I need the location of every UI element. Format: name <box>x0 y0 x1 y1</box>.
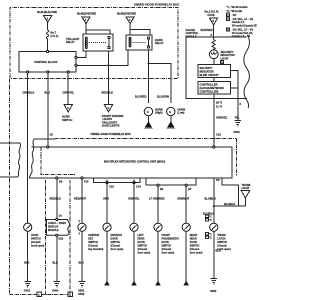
svg-text:*2 : ‘98 model: *2 : ‘98 model <box>227 10 243 13</box>
connector bracket E (under MICU) <box>146 178 196 185</box>
svg-text:INDICATOR: INDICATOR <box>200 69 214 73</box>
svg-text:RELAY: RELAY <box>155 41 164 45</box>
svg-text:LIGHT: LIGHT <box>242 186 250 190</box>
control block <box>19 52 76 73</box>
wire BLU from control block down to MICU <box>47 73 49 147</box>
svg-text:GRN/YEL: GRN/YEL <box>128 197 140 201</box>
ground G501 <box>234 121 242 134</box>
svg-text:CONTROLLER): CONTROLLER) <box>200 90 219 94</box>
svg-text:RELAY: RELAY <box>66 40 75 44</box>
svg-text:V6 model (Canada SE: V6 model (Canada SE <box>232 24 257 27</box>
svg-text:AUDIO – VIDEO: AUDIO – VIDEO <box>48 222 66 225</box>
pin on control block top <box>47 50 49 52</box>
svg-text:· DASH LIGHTS: · DASH LIGHTS <box>101 124 120 128</box>
svg-text:BLU/RED: BLU/RED <box>135 95 147 99</box>
connector bracket C (under MICU) <box>94 178 140 183</box>
connector triangle No.43 fuse (T3) <box>117 12 136 24</box>
security indicator light bulb <box>209 50 234 64</box>
svg-text:G502: G502 <box>78 292 85 296</box>
wire ground riser down to G501 <box>237 88 239 121</box>
ground group dashed box 2 <box>42 180 73 297</box>
wire horn high to ground <box>147 116 149 122</box>
svg-text:UNDER–HOOD FUSE/RELAY BOX: UNDER–HOOD FUSE/RELAY BOX <box>134 2 179 6</box>
wire E7 to right rear door switch <box>185 186 187 223</box>
svg-text:No.41 (20 A) FUSE: No.41 (20 A) FUSE <box>37 10 57 14</box>
driver's door switch <box>103 223 124 251</box>
legend notes <box>227 6 258 38</box>
junction dot horn branch <box>148 62 150 64</box>
front passenger's door switch <box>154 223 179 254</box>
svg-text:G501: G501 <box>234 130 241 134</box>
MICU box <box>29 147 239 206</box>
svg-text:FUSE: FUSE <box>208 13 215 17</box>
svg-text:BLU/BLK: BLU/BLK <box>224 202 236 206</box>
svg-text:CONTROL BLOCK: CONTROL BLOCK <box>34 60 58 64</box>
hood switch <box>24 223 45 247</box>
bracket C pin C15 <box>106 182 108 184</box>
body ground (front passenger's door) <box>156 281 161 285</box>
svg-text:BLINK CIRCUIT: BLINK CIRCUIT <box>200 73 220 77</box>
svg-text:LIGHT: LIGHT <box>221 56 229 60</box>
svg-text:E9: E9 <box>160 187 164 191</box>
svg-text:No.2 (10 A): No.2 (10 A) <box>205 10 219 14</box>
svg-text:G501: G501 <box>78 289 85 293</box>
ground group dashed box 1 <box>9 79 45 297</box>
svg-text:*1 : ‘96–98 models: *1 : ‘96–98 models <box>227 6 249 9</box>
pin on control block right (upper) <box>75 56 77 58</box>
svg-text:door open): door open) <box>138 252 151 255</box>
svg-text:(GAUGE/NETWORK: (GAUGE/NETWORK <box>200 86 225 90</box>
svg-text:CONTROLLER: CONTROLLER <box>200 83 218 87</box>
ground under horn high <box>144 122 153 129</box>
svg-text:UNDER–DASH FUSE/RELAY BOX: UNDER–DASH FUSE/RELAY BOX <box>91 132 131 136</box>
wire right rear door switch to body ground <box>185 231 187 281</box>
trunk light arrow <box>241 191 250 198</box>
junction dot trunk light tap <box>213 205 215 207</box>
body ground (right rear door) <box>184 281 189 285</box>
wire horn relay contact down and branch to horns <box>148 50 150 103</box>
torn edge left outer <box>0 143 21 177</box>
trunk latch switch <box>210 223 231 251</box>
horn low <box>167 107 186 115</box>
audio-video display module box (torn right edge) <box>47 220 70 241</box>
under-hood fuse/relay box (dash-dot outline) <box>10 8 178 79</box>
svg-text:G401: G401 <box>24 289 31 293</box>
svg-text:WHT/RED: WHT/RED <box>201 28 213 32</box>
wire E9 to front passenger's door switch <box>157 186 159 223</box>
arrow to horn switch <box>62 105 72 122</box>
MICU top pin GRN/YEL <box>213 146 215 148</box>
wire bulb to blink circuit box <box>213 59 215 65</box>
svg-text:GRN/BLK: GRN/BLK <box>23 91 35 95</box>
svg-text:DISPLAY: DISPLAY <box>48 226 59 229</box>
gauge control module box (right edge torn) <box>186 28 248 99</box>
svg-text:No.43 (15 A) FUSE: No.43 (15 A) FUSE <box>117 12 136 16</box>
wire blink circuit to controller box <box>213 78 215 82</box>
svg-text:G502: G502 <box>210 289 217 293</box>
ground G502 <box>210 279 217 294</box>
audio module top pin <box>56 218 58 220</box>
svg-text:LT GRN/RED: LT GRN/RED <box>149 197 165 201</box>
svg-text:E7: E7 <box>188 187 192 191</box>
svg-text:MODULE: MODULE <box>186 34 198 38</box>
wire bus taillight coil to control block <box>77 51 86 58</box>
ground under horn low <box>166 122 175 129</box>
bracket C pin C14 <box>133 182 135 184</box>
wire D9 to audio module <box>56 179 58 218</box>
svg-text:: D4: : D4 <box>232 14 237 17</box>
MICU bottom pin D9 <box>56 177 58 179</box>
wire trunk light arrow to horizontal <box>244 198 246 206</box>
svg-text:(Low): (Low) <box>178 111 185 115</box>
pin on control block right (lower) <box>75 64 77 66</box>
horn high <box>144 107 163 115</box>
svg-text:BLK: BLK <box>216 249 221 253</box>
svg-text:GRN/WHT: GRN/WHT <box>177 197 190 201</box>
torn edge left inner <box>30 139 56 178</box>
svg-text:RED/WHT: RED/WHT <box>74 197 87 201</box>
svg-text:BLU/GRN: BLU/GRN <box>157 95 169 99</box>
svg-text:GRN/YEL: GRN/YEL <box>63 91 75 95</box>
ground G501/G502 <box>78 282 85 297</box>
security indicator blink circuit box <box>198 65 231 78</box>
svg-text:1A: 1A <box>59 214 62 218</box>
pin on control block bottom GRN/YEL <box>67 71 69 73</box>
under-dash box right dash edge <box>236 139 238 177</box>
taillight relay <box>66 34 113 51</box>
wire GRN/YEL from control block down to horn switch arrow <box>67 73 69 104</box>
svg-text:door open): door open) <box>190 252 203 255</box>
horn relay <box>126 35 164 50</box>
svg-text:door open): door open) <box>162 252 175 255</box>
wire driver's door switch to body ground <box>106 231 108 281</box>
svg-text:BLK: BLK <box>53 261 58 265</box>
arrow to front parking lights <box>101 105 124 128</box>
wire GRN/YEL from controller down to MICU <box>213 94 215 147</box>
svg-text:key inserted): key inserted) <box>88 248 103 251</box>
under-dash box top dash-dot line <box>55 138 237 140</box>
left rear door switch <box>130 223 151 254</box>
audio module bottom pin <box>56 234 58 236</box>
svg-text:(7.5 A): (7.5 A) <box>51 34 59 38</box>
connector triangle No.2 fuse (T4) <box>205 10 219 25</box>
wire left rear door switch to body ground <box>133 231 135 281</box>
svg-text:GRN/YEL: GRN/YEL <box>216 115 228 119</box>
wire T3 to horn relay with branch <box>129 24 131 35</box>
svg-text:A29: A29 <box>58 236 63 240</box>
ground G404 <box>52 282 60 293</box>
svg-text:C14: C14 <box>136 185 141 189</box>
svg-text:RED/BLU: RED/BLU <box>50 197 62 201</box>
svg-text:C9: C9 <box>50 132 54 136</box>
wire front passenger's door switch to body ground <box>157 231 159 281</box>
wire trunk latch switch to ground <box>213 231 215 278</box>
svg-text:P8: P8 <box>216 178 220 182</box>
ground G401 <box>24 282 31 293</box>
svg-text:SECURITY: SECURITY <box>200 66 213 70</box>
svg-text:F10: F10 <box>84 180 89 184</box>
right rear door switch <box>182 223 203 254</box>
svg-text:MULTIPLEX INTEGRATED CONTROL U: MULTIPLEX INTEGRATED CONTROL UNIT (MICU) <box>104 160 165 164</box>
wire fuse No.7 to control block <box>47 39 49 50</box>
wire C15 to driver's door switch <box>106 179 108 223</box>
svg-text:C15: C15 <box>109 185 114 189</box>
wire T1 to fuse No.7 <box>47 22 49 30</box>
svg-text:door open): door open) <box>111 248 124 251</box>
MICU top pin BLU <box>47 146 49 148</box>
connector marks above trunk switch <box>206 215 213 222</box>
svg-text:MODULE: MODULE <box>48 229 59 232</box>
under-dash box dash-dot left/bottom edges <box>41 148 75 175</box>
svg-text:H: H <box>147 110 149 114</box>
wire bus lower: control block to horn relay coil <box>77 50 128 65</box>
svg-text:D9: D9 <box>59 180 63 184</box>
resistor in gauge module <box>212 40 215 50</box>
body ground (driver's door) <box>105 281 110 285</box>
ignition key switch <box>78 223 104 251</box>
wire audio module to ground <box>56 236 58 281</box>
svg-text:BLK: BLK <box>79 261 84 265</box>
wire ignition switch to ground <box>81 231 83 281</box>
connector triangle No.41 fuse (T1) <box>37 10 57 22</box>
wire horn low to ground <box>170 116 172 122</box>
svg-text:GRN: GRN <box>103 197 109 201</box>
connector triangle No.42 fuse (T2) <box>77 12 96 24</box>
wire F10 to ignition key switch <box>81 179 83 223</box>
wire blink circuit right to ground riser <box>231 71 238 89</box>
svg-text:26 *5: 26 *5 <box>216 101 223 105</box>
fuse No.7 symbol <box>46 30 58 39</box>
torn edge wavy line right <box>244 35 250 108</box>
wire C14 to left rear door switch <box>133 179 135 223</box>
svg-text:(High): (High) <box>155 111 163 115</box>
svg-text:11 *6: 11 *6 <box>216 105 222 109</box>
svg-text:BLK: BLK <box>24 261 29 265</box>
svg-text:SWITCH: SWITCH <box>62 118 72 122</box>
wire GRN/BLK from control block down (to hood switch) <box>27 73 29 223</box>
wire T2 to taillight relay with branch <box>85 24 87 34</box>
bracket E pin E7 <box>185 184 187 186</box>
wire hood switch to ground <box>27 231 29 281</box>
body ground (left rear door) <box>132 281 137 285</box>
svg-text:BLU/BLK: BLU/BLK <box>205 197 217 201</box>
svg-text:hood open): hood open) <box>31 245 44 248</box>
svg-text:YEL: YEL <box>235 115 240 119</box>
pin on control block bottom BLU <box>47 71 49 73</box>
svg-text:RED/BLK: RED/BLK <box>102 91 114 95</box>
svg-text:BLU: BLU <box>45 91 50 95</box>
svg-text:H: H <box>169 110 171 114</box>
connector marks below trunk switch <box>206 233 213 240</box>
wire to trunk light (horizontal) <box>214 205 246 207</box>
svg-text:C18: C18 <box>216 133 221 137</box>
svg-text:No.42 (15 A) FUSE: No.42 (15 A) FUSE <box>77 12 96 16</box>
pin on control block bottom GRN/BLK <box>27 71 29 73</box>
wire T4 down <box>213 25 215 40</box>
MICU bottom pin F10 <box>81 177 83 179</box>
controller box <box>198 82 231 95</box>
wire taillight contact down crossing bus <box>108 51 110 105</box>
junction dot at taillight contact and bus <box>108 64 110 66</box>
svg-text:G404: G404 <box>52 289 59 293</box>
bracket E pin E9 <box>157 184 159 186</box>
wire P8 to trunk latch switch <box>213 178 215 223</box>
